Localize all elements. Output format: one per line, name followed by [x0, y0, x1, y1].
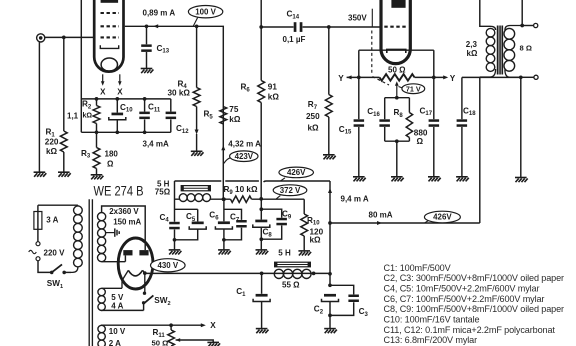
svg-text:75: 75	[229, 105, 239, 114]
capacitor C2	[322, 294, 339, 328]
ground R4	[191, 151, 204, 156]
transformer T2 secondary	[504, 28, 515, 39]
resistor R5 75k	[220, 107, 227, 151]
wire jack to grid	[45, 36, 94, 40]
svg-text:2 A: 2 A	[109, 339, 121, 346]
label 2x360V 150mA	[109, 207, 141, 226]
wire V2 plate to primary	[480, 0, 496, 30]
input jack J1	[37, 34, 45, 42]
capacitor C11	[139, 99, 150, 132]
svg-text:50 Ω: 50 Ω	[388, 66, 406, 75]
tube V1 cathode arrow left to X	[101, 74, 105, 86]
capacitor C7	[224, 209, 247, 240]
ground R1	[58, 172, 71, 177]
fuse 3A	[34, 205, 42, 241]
svg-text:4,32 m A: 4,32 m A	[228, 139, 261, 148]
tube V2 envelope	[381, 0, 410, 64]
ground C8 C9	[256, 250, 269, 255]
ground C15	[353, 177, 366, 182]
capacitor C16 / resistor R8 box	[379, 98, 412, 177]
svg-text:Ω: Ω	[417, 137, 424, 146]
wire Y rail left	[347, 75, 380, 79]
resistor R6 91k	[258, 0, 265, 201]
wire X feed	[169, 323, 206, 327]
tube V1 plate bar	[101, 0, 119, 3]
ground C18	[456, 177, 469, 182]
ground cathode box	[391, 177, 404, 182]
svg-text:372 V: 372 V	[280, 186, 301, 195]
svg-text:WE 274 B: WE 274 B	[94, 183, 144, 198]
capacitor C1	[253, 273, 270, 328]
svg-text:8 Ω: 8 Ω	[520, 44, 532, 53]
wire 80mA rail	[330, 221, 480, 225]
svg-text:Y: Y	[338, 74, 344, 83]
transformer T1 5V winding	[98, 288, 144, 310]
svg-text:5 V: 5 V	[111, 293, 124, 302]
svg-text:150 mA: 150 mA	[113, 217, 141, 226]
label R10 120k	[307, 216, 324, 245]
capacitor C17	[429, 77, 440, 176]
svg-text:2x360 V: 2x360 V	[109, 207, 139, 216]
ground R7	[323, 155, 336, 160]
resistor R4 30k	[193, 26, 200, 151]
node choke2 out	[312, 272, 316, 276]
ground C1	[256, 329, 269, 334]
svg-text:3 A: 3 A	[46, 216, 58, 225]
svg-text:C8, C9: 100mF/500V+8mF/1000V o: C8, C9: 100mF/500V+8mF/1000V oiled paper	[384, 304, 565, 314]
svg-text:C2, C3: 300mF/500V+8mF/1000V o: C2, C3: 300mF/500V+8mF/1000V oiled paper	[384, 273, 565, 283]
svg-text:55 Ω: 55 Ω	[282, 281, 300, 290]
svg-text:250: 250	[306, 112, 320, 121]
resistor R9 10k	[231, 196, 252, 202]
svg-text:kΩ: kΩ	[467, 49, 478, 58]
rectifier V3 envelope	[118, 238, 153, 289]
oval 426V upper	[279, 167, 314, 181]
ground C4 C5	[169, 250, 182, 255]
svg-text:430 V: 430 V	[157, 261, 178, 270]
capacitor C10 100mF	[109, 99, 126, 132]
svg-text:10 V: 10 V	[109, 327, 126, 336]
oval 71V	[399, 84, 425, 94]
oval 430V	[151, 259, 186, 272]
rectifier anode right	[139, 250, 148, 255]
svg-text:9,4 m A: 9,4 m A	[341, 195, 369, 204]
parts list	[384, 263, 565, 345]
wire plate 100V line	[125, 24, 224, 199]
svg-text:50 Ω: 50 Ω	[152, 339, 169, 346]
label R8 880	[394, 108, 428, 146]
svg-text:Ω: Ω	[107, 159, 114, 168]
transformer T1 HV secondary	[98, 206, 146, 262]
oval 423V	[224, 151, 258, 164]
svg-text:100 V: 100 V	[195, 7, 216, 16]
svg-text:C6, C7: 100mF/500V+2.2mF/600V: C6, C7: 100mF/500V+2.2mF/600V mylar	[384, 294, 545, 304]
wire rail left corner	[174, 181, 176, 222]
wire filament right leg	[433, 50, 435, 77]
R11 wiper	[176, 338, 214, 342]
svg-text:2,3: 2,3	[466, 40, 478, 49]
terminal output bottom	[534, 75, 538, 79]
pot wiper arrow	[395, 81, 399, 98]
resistor R1 220k	[60, 37, 67, 171]
terminal mains bottom	[36, 257, 40, 261]
switch SW2	[142, 292, 153, 311]
svg-text:180: 180	[105, 150, 119, 159]
tube V1 grid dashes	[101, 13, 120, 37]
wire grid line to V2	[329, 26, 380, 28]
wire primary feed	[479, 77, 481, 223]
tube V2 grid dashes	[384, 26, 406, 28]
label R6 91k	[241, 83, 280, 102]
ground C13	[141, 69, 154, 74]
svg-text:80 mA: 80 mA	[369, 210, 393, 219]
ground R10	[298, 251, 311, 256]
svg-text:426V: 426V	[287, 168, 306, 177]
tube V1 envelope	[94, 0, 123, 72]
tube V1 cathode	[100, 45, 118, 48]
transformer T2 primary	[486, 28, 495, 37]
svg-text:220 V: 220 V	[44, 248, 66, 257]
svg-text:0,1 µF: 0,1 µF	[283, 35, 306, 44]
wire 430V rail	[145, 272, 330, 276]
oval 100V	[188, 6, 222, 27]
capacitor C13	[141, 26, 152, 68]
svg-text:423V: 423V	[235, 152, 254, 161]
resistor R2 1.1k	[93, 99, 100, 132]
ground C2 C3	[324, 329, 337, 334]
svg-text:4 A: 4 A	[111, 302, 123, 311]
svg-text:kΩ: kΩ	[308, 124, 320, 133]
wire cathode rail bottom	[81, 130, 171, 134]
choke L2 5H 55ohm	[274, 262, 311, 278]
wire secondary top feedback	[520, 0, 533, 27]
svg-text:3,4 mA: 3,4 mA	[143, 140, 169, 149]
label R11 50	[152, 328, 169, 346]
svg-text:kΩ: kΩ	[310, 236, 322, 245]
label 220V	[29, 248, 65, 257]
rectifier anode left	[123, 250, 132, 262]
svg-text:kΩ: kΩ	[268, 92, 280, 101]
wire choke2 riser	[328, 181, 332, 287]
resistor R11 50ohm	[168, 325, 175, 346]
ground jack	[34, 172, 47, 177]
potentiometer 50 ohm	[380, 74, 415, 81]
label 2,3 kohm	[466, 40, 478, 58]
ground secondary	[515, 178, 528, 183]
switch SW1	[38, 261, 71, 275]
svg-text:1,1: 1,1	[67, 112, 79, 121]
wire feedback vertical	[80, 0, 82, 132]
capacitor C5	[173, 209, 207, 249]
capacitor C9	[261, 209, 287, 239]
rectifier filament	[128, 270, 142, 276]
tube V1 cathode arrow right to X	[118, 74, 122, 86]
svg-text:X: X	[117, 88, 123, 97]
svg-text:220: 220	[45, 138, 59, 147]
wire dashed wiper link	[372, 31, 389, 86]
node rail R5	[222, 197, 226, 201]
capacitor C15	[354, 77, 365, 176]
svg-text:350V: 350V	[348, 14, 367, 23]
label R1 220k	[45, 128, 59, 156]
svg-text:5 H: 5 H	[278, 248, 291, 257]
svg-text:kΩ: kΩ	[83, 113, 93, 120]
svg-text:X: X	[100, 88, 106, 97]
choke L1 5H 75ohm	[179, 186, 210, 202]
capacitor C12	[166, 99, 177, 132]
node wiper junction	[395, 96, 399, 100]
tube V2 plate bar	[391, 0, 405, 8]
capacitor C3	[330, 285, 359, 315]
wire secondary bottom	[519, 75, 534, 177]
label R5 75k	[204, 105, 241, 124]
svg-text:75Ω: 75Ω	[155, 188, 171, 197]
svg-text:71 V: 71 V	[406, 84, 421, 93]
svg-text:C10: 100mF/16V tantale: C10: 100mF/16V tantale	[384, 315, 480, 325]
capacitor C4	[169, 209, 198, 240]
node X labels	[100, 88, 123, 97]
capacitor C18	[457, 77, 468, 176]
ground C6 C7	[218, 250, 231, 255]
wire C18 to secondary	[462, 76, 521, 78]
svg-text:kΩ: kΩ	[46, 147, 58, 156]
transformer T1 core	[89, 199, 92, 346]
resistor R3 180	[93, 132, 100, 174]
svg-text:426V: 426V	[433, 213, 452, 222]
ground R3	[91, 175, 104, 180]
HV center tap ground	[106, 228, 120, 236]
label R7 250k	[306, 100, 320, 133]
svg-text:91: 91	[268, 83, 278, 92]
svg-text:X: X	[210, 321, 216, 330]
svg-text:C13: 6.8mF/200V mylar: C13: 6.8mF/200V mylar	[384, 335, 478, 345]
resistor R7 250k	[325, 27, 332, 154]
terminal mains top	[36, 242, 40, 246]
label R3 180	[81, 149, 118, 169]
wire filter rail	[175, 199, 305, 214]
capacitor C6	[215, 197, 232, 249]
label 5V 4A	[111, 293, 124, 311]
capacitor C14 0.1uF	[261, 22, 330, 32]
svg-text:C11, C12: 0.1mF mica+2.2mF pol: C11, C12: 0.1mF mica+2.2mF polycarbonat	[384, 325, 556, 335]
transformer T2 core	[497, 26, 502, 75]
wire 350V stub	[371, 9, 373, 27]
ground C17	[428, 177, 441, 182]
svg-text:30 kΩ: 30 kΩ	[168, 88, 191, 97]
svg-text:kΩ: kΩ	[229, 115, 241, 124]
capacitor C8	[253, 199, 270, 250]
svg-text:Y: Y	[450, 74, 456, 83]
svg-text:C1: 100mF/500V: C1: 100mF/500V	[384, 263, 452, 273]
tube V2 filament	[387, 49, 406, 53]
wire cathode rail X	[81, 97, 171, 101]
transformer T1 10V winding	[98, 325, 171, 346]
transformer T1 primary	[38, 205, 82, 272]
wire jack sleeve down	[38, 42, 40, 172]
oval 372V	[273, 185, 307, 199]
tube V1 heater	[101, 58, 117, 71]
wire filament right down	[143, 270, 147, 292]
terminal output top	[534, 23, 538, 27]
wire 426V line	[175, 181, 331, 182]
oval 426V lower	[424, 211, 460, 223]
svg-text:0,89 m A: 0,89 m A	[143, 8, 176, 17]
label R4 30k	[168, 79, 191, 97]
label 10V 2A	[109, 327, 126, 346]
ground R11 wiper	[207, 342, 220, 346]
wire filament left leg	[359, 50, 434, 77]
svg-text:C4, C5: 10mF/500V+2.2mF/600V m: C4, C5: 10mF/500V+2.2mF/600V mylar	[384, 284, 540, 294]
resistor R10 120k	[301, 214, 308, 250]
label 5H 75ohm	[155, 180, 171, 197]
wire Y rail right	[415, 75, 449, 79]
label R2 1,1k	[67, 100, 92, 121]
wire filament left to 5V	[102, 270, 129, 288]
